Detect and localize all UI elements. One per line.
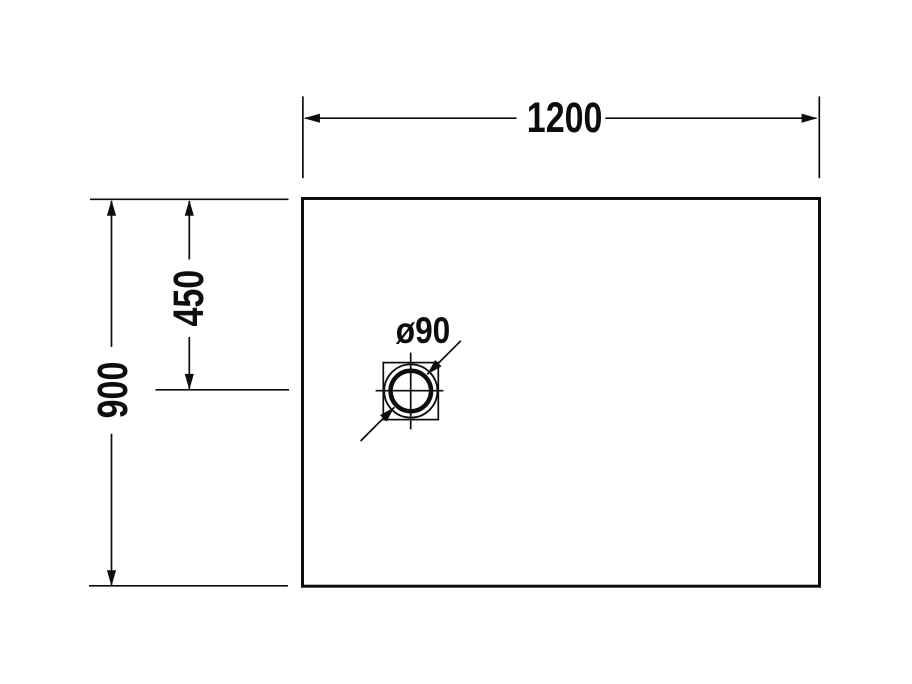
drain: square flange: [383, 363, 438, 420]
svg-text:450: 450: [166, 270, 213, 327]
drain diameter leader: lower segment: [361, 407, 395, 441]
drain: inner circle: [391, 371, 432, 412]
dimension 900: extension line bottom: [89, 585, 288, 587]
drain diameter leader: upper segment: [427, 341, 461, 375]
dimension 450: label: [166, 270, 213, 327]
dimension 1200: dimension line: [304, 114, 817, 123]
dimension 1200: extension line left: [302, 96, 304, 178]
drain: centerline horizontal: [376, 390, 444, 392]
svg-text:ø90: ø90: [396, 311, 450, 352]
drain: outer circle: [384, 364, 437, 417]
dimension 900: extension line top: [90, 198, 289, 200]
drain label ø90: [396, 311, 450, 352]
svg-text:900: 900: [89, 362, 136, 419]
svg-text:1200: 1200: [527, 94, 603, 141]
drain: centerline vertical: [410, 353, 412, 430]
dimension 1200: extension line right: [818, 96, 820, 178]
dimension 900: dimension line: [107, 200, 116, 586]
shower tray outline: [303, 199, 820, 587]
dimension 450: extension line middle: [156, 389, 290, 391]
dimension 450: dimension line: [185, 200, 194, 390]
dimension 1200: label: [527, 94, 603, 141]
dimension 900: label: [89, 362, 136, 419]
